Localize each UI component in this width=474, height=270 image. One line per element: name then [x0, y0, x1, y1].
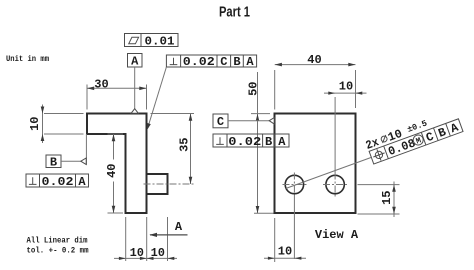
svg-text:30: 30 [94, 78, 108, 92]
svg-text:B: B [50, 155, 57, 169]
svg-text:All Linear dim: All Linear dim [27, 236, 88, 246]
svg-text:50: 50 [246, 81, 260, 95]
dim 10 bottom right view [264, 197, 306, 263]
svg-text:40: 40 [105, 163, 119, 177]
left view boss centerline [144, 183, 194, 185]
datum B box [46, 155, 61, 169]
svg-text:A: A [449, 120, 461, 136]
note tolerance [27, 236, 89, 256]
svg-text:C: C [424, 130, 436, 146]
svg-text:35: 35 [177, 137, 191, 151]
dim 40 top right view [275, 53, 356, 109]
hole 1 [283, 173, 307, 197]
svg-text:0.02: 0.02 [183, 55, 215, 69]
svg-text:Part 1: Part 1 [219, 5, 250, 21]
svg-text:A: A [131, 54, 139, 68]
datum B leader and triangle [61, 134, 86, 165]
dim 10 top right [324, 79, 367, 172]
svg-text:40: 40 [307, 53, 321, 67]
title Part 1 [219, 5, 250, 21]
svg-text:2x: 2x [364, 135, 381, 153]
FCF perpendicularity 0.02 B A (right) [213, 134, 289, 149]
svg-text:B: B [436, 125, 448, 141]
svg-text:10: 10 [28, 116, 42, 130]
svg-text:10: 10 [130, 246, 144, 260]
dim 10 10 bottom left view [114, 217, 177, 261]
datum A box [128, 54, 143, 69]
dim 50 [246, 72, 273, 213]
view label View A [315, 228, 359, 242]
svg-text:View A: View A [315, 228, 359, 242]
left view boss [147, 174, 168, 194]
position symbol [374, 150, 383, 159]
svg-text:tol. +- 0.2 mm: tol. +- 0.2 mm [27, 246, 89, 256]
dim 10 left [28, 105, 83, 144]
svg-text:Unit in mm: Unit in mm [6, 54, 49, 64]
dim 15 [358, 182, 400, 218]
svg-text:C: C [217, 115, 224, 129]
svg-text:10: 10 [151, 246, 165, 260]
leader from FCF CBA to part edge [147, 67, 167, 130]
datum A leader and triangle [131, 67, 138, 113]
svg-text:10: 10 [278, 244, 292, 258]
svg-text:B: B [265, 135, 272, 149]
right view plate outline [275, 114, 356, 214]
svg-text:0.02: 0.02 [42, 175, 74, 189]
svg-text:0.01: 0.01 [145, 34, 175, 48]
svg-text:0.02: 0.02 [228, 135, 261, 149]
FCF perpendicularity 0.02 A (left) [26, 174, 89, 189]
datum C leader and triangle [228, 118, 274, 124]
svg-text:A: A [175, 220, 183, 234]
position FCF frame [369, 119, 463, 164]
svg-text:A: A [246, 55, 254, 69]
dim 30 [87, 78, 147, 110]
dim 40 left view [105, 134, 124, 213]
hole 2 [323, 173, 347, 197]
view direction arrow A [149, 220, 187, 237]
svg-text:A: A [278, 135, 286, 149]
FCF flatness 0.01 [125, 34, 179, 49]
svg-text:B: B [233, 55, 240, 69]
left view part outline [87, 114, 147, 214]
svg-text:10: 10 [339, 79, 353, 93]
svg-text:A: A [78, 175, 86, 189]
FCF perpendicularity 0.02 C B A (top) [166, 55, 256, 69]
svg-text:15: 15 [380, 190, 394, 204]
svg-text:C: C [220, 55, 227, 69]
dim 35 [151, 114, 195, 185]
note units [6, 54, 49, 64]
hole callout leader [286, 158, 371, 189]
hole callout 2x dia 10 +-0.5 with position FCF [364, 107, 464, 166]
datum C box [213, 114, 228, 129]
